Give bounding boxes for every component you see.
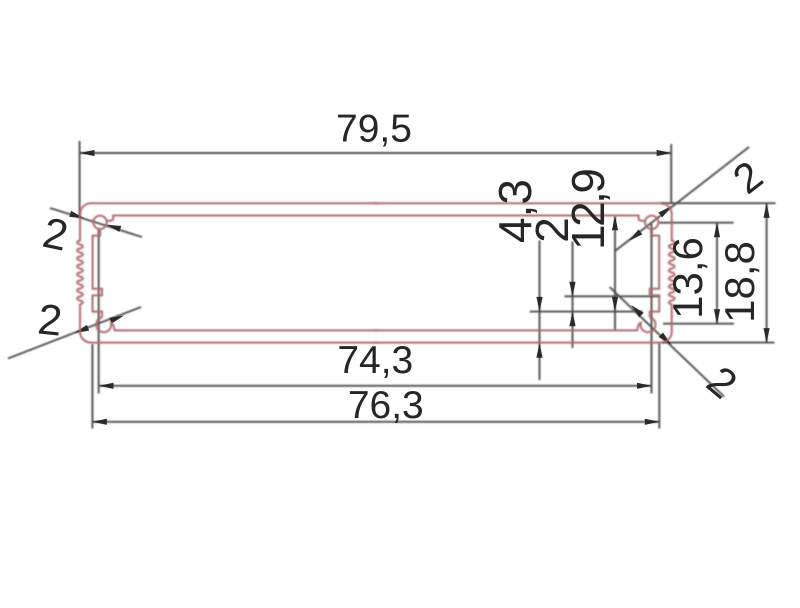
dimension line 4,3 [539,241,541,381]
extension line 76,3 right [658,343,660,429]
svg-text:12,9: 12,9 [562,168,614,250]
svg-text:74,3: 74,3 [337,339,413,382]
arrowhead 2 middle upper [569,282,575,297]
extension line 79,5 left [79,141,81,216]
arrowhead 79,5 right [657,150,672,156]
arrowhead leader top-right inner [627,229,642,243]
arrowhead 12,9 bottom [612,297,618,312]
dimension line 12,9 [614,216,616,330]
arrowhead 4,3 upper [536,297,542,312]
extension line slot step upper [565,295,660,297]
extension line 74,3 right [651,224,653,394]
svg-text:2: 2 [36,295,65,345]
extension line 18,8 bottom [662,342,775,344]
arrowhead 12,9 top [612,216,618,231]
dimension line 76,3 [92,421,659,423]
dimension line 2 middle [572,242,574,349]
extrusion profile right half mirrored [374,203,675,342]
svg-text:13,6: 13,6 [664,237,711,319]
leader line wall 2 top-right [615,147,749,251]
dimension line 79,5 [80,152,671,154]
leader line wall 2 bottom-right [610,287,725,397]
leader line wall 2 bottom-left [8,307,141,359]
svg-text:18,8: 18,8 [716,241,763,323]
arrowhead 18,8 top [764,203,770,218]
leader line wall 2 top-left [50,208,142,237]
arrowhead 74,3 left [99,383,114,389]
extension line 74,3 left [98,229,100,394]
arrowhead 2 middle lower [569,312,575,327]
extension line 13,6 top [659,222,734,224]
arrowhead 76,3 left [92,419,107,425]
dimension line 13,6 [716,223,718,324]
extension line 13,6 bottom [663,323,734,325]
arrowhead leader bottom-left inner [109,313,125,324]
arrowhead 74,3 right [637,383,652,389]
extension line 76,3 left [91,344,93,429]
svg-text:79,5: 79,5 [336,107,412,150]
extension line 79,5 right [670,144,672,203]
arrowhead 79,5 left [80,150,95,156]
arrowhead leader top-right outer [658,204,673,218]
extrusion profile left half [77,203,378,342]
dimension line 74,3 [99,385,652,387]
arrowhead 4,3 lower [536,343,542,358]
extension line slot shoulder lower [530,311,643,313]
arrowhead leader bottom-right inner [629,303,644,318]
extension line 18,8 top [661,202,776,204]
arrowhead leader bottom-left outer [73,325,89,336]
arrowhead leader bottom-right outer [659,333,674,348]
arrowhead 18,8 bottom [764,328,770,343]
svg-text:76,3: 76,3 [348,384,424,427]
arrowhead 13,6 bottom [714,309,720,324]
arrowhead leader top-left outer [69,211,85,221]
arrowhead 13,6 top [714,223,720,238]
arrowhead 76,3 right [645,419,660,425]
dimension line 18,8 [766,203,768,342]
arrowhead leader top-left inner [106,222,122,232]
